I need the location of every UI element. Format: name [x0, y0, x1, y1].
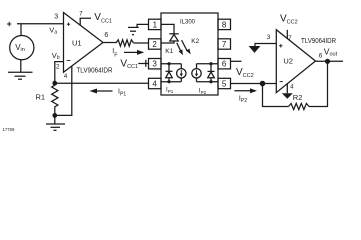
svg-text:2: 2 — [152, 40, 157, 49]
minus input marker U1 — [67, 59, 71, 61]
LED K1 inside IL300 — [161, 24, 179, 43]
PD2 photocurrent arrow in circle — [195, 70, 198, 77]
svg-text:6: 6 — [319, 53, 323, 60]
svg-text:3: 3 — [267, 34, 271, 41]
wire IL300 pin1 to ground — [137, 24, 148, 27]
svg-text:IL300: IL300 — [180, 20, 196, 26]
junction R1 bottom — [52, 113, 57, 118]
pin box 6 — [218, 59, 231, 69]
wire resistor to IL300 pin2 — [134, 42, 149, 44]
svg-text:17759: 17759 — [3, 127, 16, 132]
junction PD1 top — [167, 62, 170, 65]
svg-text:4: 4 — [152, 80, 157, 89]
junction R1 top — [52, 81, 57, 86]
svg-text:8: 8 — [222, 20, 227, 29]
op-amp U1 — [64, 13, 104, 73]
ground (R1) — [46, 115, 65, 130]
ground arrow (U2 pin3) — [249, 46, 261, 53]
svg-text:6: 6 — [104, 32, 108, 39]
IL300 body — [161, 13, 218, 95]
wire U2 pin7 to VCC2 — [286, 30, 288, 39]
photodiode PD1 — [161, 64, 186, 82]
resistor (LED drive, unlabeled) — [116, 40, 134, 46]
feedback wire right leg — [309, 61, 328, 106]
PD1 photocurrent arrow in circle — [180, 70, 183, 77]
ground (Vin) — [8, 60, 33, 79]
light arrow 2 — [182, 40, 191, 54]
pin box 4 — [149, 78, 162, 88]
current IP2 arrow — [234, 88, 257, 93]
svg-text:P1: P1 — [120, 91, 126, 97]
op-amp U2 — [276, 30, 315, 93]
junction PD2 bottom — [209, 80, 212, 83]
wire U1 pin4 to ground — [55, 66, 72, 115]
svg-text:R1: R1 — [36, 92, 46, 101]
svg-text:P2: P2 — [241, 98, 247, 104]
wire IL300 pin5 to U2 inverting input — [231, 83, 277, 85]
junction PD1 bottom — [167, 80, 170, 83]
wire U2 pin4 — [286, 84, 288, 94]
minus input marker U2 — [280, 81, 283, 83]
svg-text:K1: K1 — [165, 48, 173, 55]
svg-text:4: 4 — [290, 85, 294, 91]
ground arrow (U2 pin4) — [282, 93, 293, 99]
svg-text:5: 5 — [222, 80, 227, 89]
svg-text:F: F — [114, 52, 118, 58]
wire IL300 pin6 stub — [231, 60, 242, 62]
svg-text:TLV9064IDR: TLV9064IDR — [301, 38, 336, 45]
svg-text:2: 2 — [56, 63, 60, 70]
svg-text:3: 3 — [152, 60, 157, 69]
svg-text:U1: U1 — [72, 39, 82, 48]
photodiode PD2 — [192, 64, 218, 82]
feedback wire left leg — [263, 84, 289, 107]
current IP1 arrow — [90, 89, 113, 94]
light arrow 1 — [177, 43, 183, 55]
wire summing node to IL300 pin4 — [55, 82, 149, 84]
svg-text:TLV9064IDR: TLV9064IDR — [76, 67, 112, 74]
svg-text:7: 7 — [288, 36, 292, 42]
current IF arrow — [124, 50, 144, 55]
svg-text:4: 4 — [64, 74, 68, 80]
svg-text:R2: R2 — [293, 93, 303, 102]
svg-text:Vin: Vin — [15, 43, 25, 53]
svg-text:7: 7 — [222, 40, 227, 49]
wire Vin top to U1 pin3 — [17, 24, 64, 36]
plus input marker U1 — [67, 23, 70, 26]
svg-text:U2: U2 — [283, 57, 293, 66]
svg-text:Vb: Vb — [52, 51, 60, 61]
wire U1 inverting input — [55, 62, 64, 84]
svg-text:K2: K2 — [191, 38, 199, 45]
svg-text:VCC1: VCC1 — [94, 12, 112, 25]
svg-text:VCC2: VCC2 — [236, 67, 254, 79]
junction output node — [325, 59, 330, 64]
supply tap bar (pin3) — [145, 60, 147, 67]
svg-text:P2: P2 — [201, 90, 207, 95]
junction PD2 top — [209, 62, 212, 65]
pin box 1 — [149, 19, 162, 29]
wire U1 output — [103, 42, 116, 44]
svg-text:Vout: Vout — [324, 47, 338, 58]
plus input marker U2 — [279, 44, 283, 48]
pin box 2 — [149, 39, 162, 49]
wire U2 output — [316, 60, 344, 62]
resistor R2 — [289, 103, 309, 109]
resistor R1 — [52, 83, 58, 115]
source Vin — [10, 36, 34, 60]
svg-text:3: 3 — [54, 14, 58, 21]
pin box 5 — [218, 78, 231, 88]
svg-text:VCC2: VCC2 — [280, 13, 298, 25]
wire U1 pin7 to VCC1 — [80, 18, 91, 25]
ground (IL300 pin1) — [128, 27, 139, 34]
svg-text:P1: P1 — [168, 89, 174, 94]
junction U2 inverting node — [260, 81, 266, 87]
svg-text:6: 6 — [222, 60, 227, 69]
svg-text:1: 1 — [153, 20, 158, 29]
wire U2 non-inverting input — [255, 44, 276, 47]
svg-text:7: 7 — [79, 12, 83, 18]
pin box 3 — [149, 59, 162, 69]
polarity plus — [7, 22, 11, 26]
wire VCC1 stub to pin3 — [138, 63, 148, 65]
svg-text:VCC1: VCC1 — [120, 58, 138, 70]
pin box 8 — [218, 19, 231, 29]
pin box 7 — [218, 39, 231, 49]
svg-text:Va: Va — [49, 26, 57, 36]
